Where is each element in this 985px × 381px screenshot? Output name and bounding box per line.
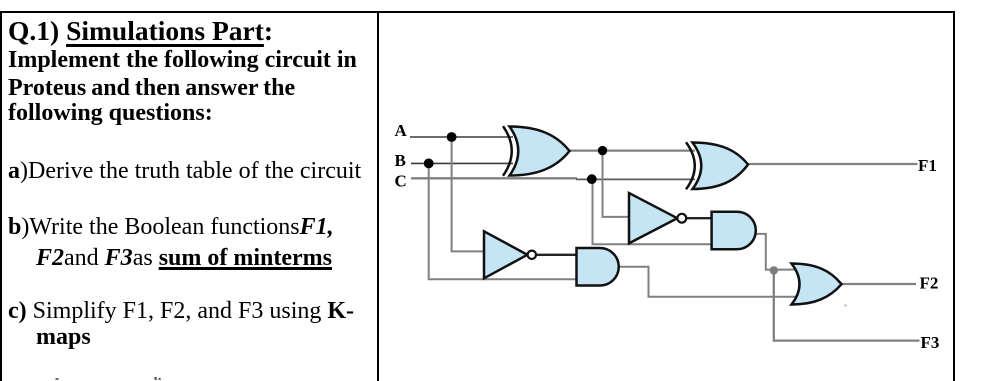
question text: paragraph line 3	[8, 100, 213, 127]
not gate NOT2 bubble	[528, 251, 536, 259]
and gate AND2	[577, 248, 619, 286]
wire C to XOR2 lower input	[576, 178, 695, 180]
xor gate XOR2 body	[693, 143, 749, 190]
cut-off text remnant marks at bottom edge	[56, 378, 59, 380]
or gate OR1	[792, 264, 842, 305]
wire OR output to F2	[840, 283, 916, 285]
wire AND1 output to OR top input	[755, 234, 797, 270]
question text: item c line 1	[8, 298, 354, 325]
svg-text:B: B	[395, 151, 406, 170]
wire XOR1 output column down to NOT1	[603, 151, 631, 217]
junction dot XOR1 output	[598, 146, 607, 155]
table right border	[953, 11, 955, 381]
wire NOT1 output to AND1	[685, 217, 713, 219]
xor gate XOR2 leading arc	[686, 142, 695, 189]
table left border	[0, 11, 2, 381]
wire B column down to AND2	[429, 163, 578, 279]
stray speck near OR gate output	[845, 305, 847, 307]
question text: item a	[8, 158, 361, 185]
svg-text:F1: F1	[918, 156, 937, 175]
wire AND2 output to OR bottom input	[618, 267, 797, 297]
not gate NOT2 (inverter)	[484, 231, 527, 278]
svg-text:F3: F3	[921, 333, 940, 352]
wire C column down to AND1	[593, 179, 714, 244]
wire B horizontal	[411, 162, 513, 164]
wire A column down to NOT2	[452, 137, 485, 251]
junction dot F3 branch (gray)	[770, 266, 778, 274]
question text: paragraph line 2	[8, 75, 295, 102]
junction dot on wire C	[587, 174, 597, 184]
not gate NOT1 bubble	[677, 214, 686, 223]
junction dot on wire B	[424, 159, 434, 169]
wire XOR2 output to F1	[746, 163, 918, 165]
wire F3 branch down	[774, 270, 920, 341]
table top border	[0, 11, 955, 13]
junction dot on wire A	[447, 132, 457, 142]
svg-text:F2: F2	[920, 274, 939, 293]
svg-text:C: C	[395, 171, 407, 190]
xor gate XOR1 body	[510, 127, 570, 176]
question text: item b line 2	[36, 245, 332, 272]
question text: item c line 2	[36, 324, 91, 351]
xor gate XOR1 leading arc	[503, 126, 512, 176]
wire A horizontal	[410, 136, 513, 138]
wire XOR1 output to XOR2 input	[568, 150, 695, 152]
svg-text:A: A	[395, 121, 408, 140]
question text: title	[8, 15, 273, 47]
question text: item b line 1	[8, 214, 334, 241]
wire C horizontal	[411, 177, 577, 179]
wire NOT2 output to AND2	[535, 254, 578, 256]
not gate NOT1 (inverter)	[629, 193, 677, 243]
table column divider	[377, 11, 379, 381]
question text: paragraph line 1	[8, 47, 357, 74]
and gate AND1	[712, 212, 756, 250]
